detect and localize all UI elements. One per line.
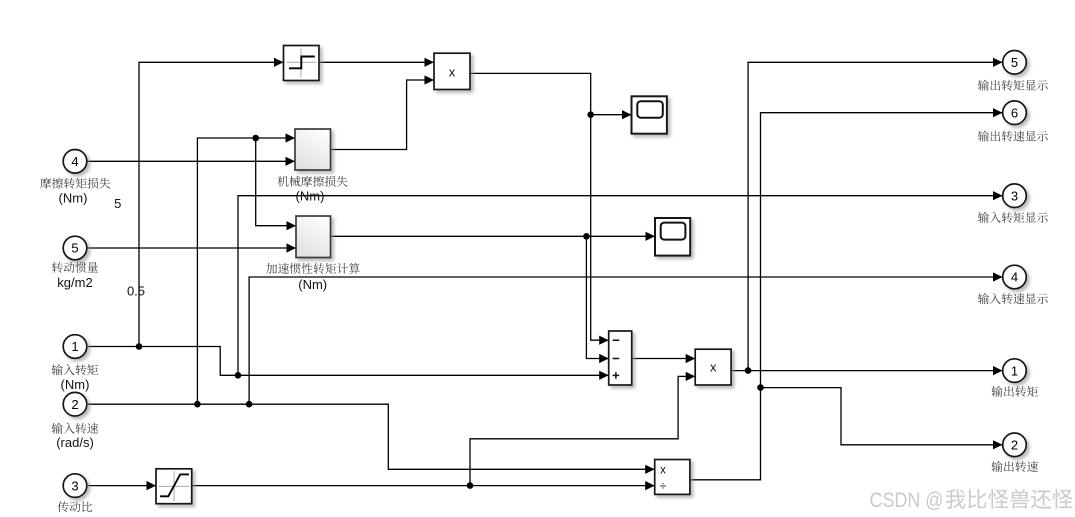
svg-text:x: x: [449, 65, 456, 80]
svg-text:÷: ÷: [660, 479, 667, 493]
svg-text:CSDN @: CSDN @: [870, 488, 944, 512]
svg-text:(Nm): (Nm): [61, 377, 90, 392]
svg-text:(Nm): (Nm): [296, 189, 325, 204]
svg-text:x: x: [660, 464, 666, 476]
svg-text:0.5: 0.5: [127, 284, 145, 299]
svg-text:3: 3: [71, 478, 78, 493]
svg-text:5: 5: [71, 241, 78, 256]
svg-text:2: 2: [1011, 438, 1018, 453]
svg-text:(Nm): (Nm): [59, 190, 88, 205]
svg-text:4: 4: [71, 154, 78, 169]
svg-text:1: 1: [71, 339, 78, 354]
svg-text:1: 1: [1011, 363, 1018, 378]
svg-text:6: 6: [1011, 105, 1018, 120]
svg-text:2: 2: [71, 397, 78, 412]
svg-text:(Nm): (Nm): [298, 277, 327, 292]
svg-text:5: 5: [1011, 55, 1018, 70]
svg-text:4: 4: [1011, 270, 1018, 285]
svg-text:(rad/s): (rad/s): [56, 435, 94, 450]
svg-text:5: 5: [114, 196, 121, 211]
svg-text:3: 3: [1011, 188, 1018, 203]
svg-text:x: x: [710, 360, 717, 375]
svg-text:kg/m2: kg/m2: [57, 275, 92, 290]
